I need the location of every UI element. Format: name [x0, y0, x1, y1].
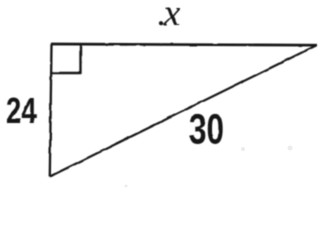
dot before x	[159, 21, 163, 25]
triangle top edge	[51, 44, 317, 45]
faint scan specks	[125, 146, 293, 188]
right angle marker	[51, 45, 81, 73]
triangle left edge	[50, 44, 52, 177]
triangle hypotenuse	[50, 45, 317, 176]
svg-text:30: 30	[189, 105, 224, 153]
svg-text:x: x	[163, 0, 181, 35]
svg-text:24: 24	[6, 90, 37, 131]
